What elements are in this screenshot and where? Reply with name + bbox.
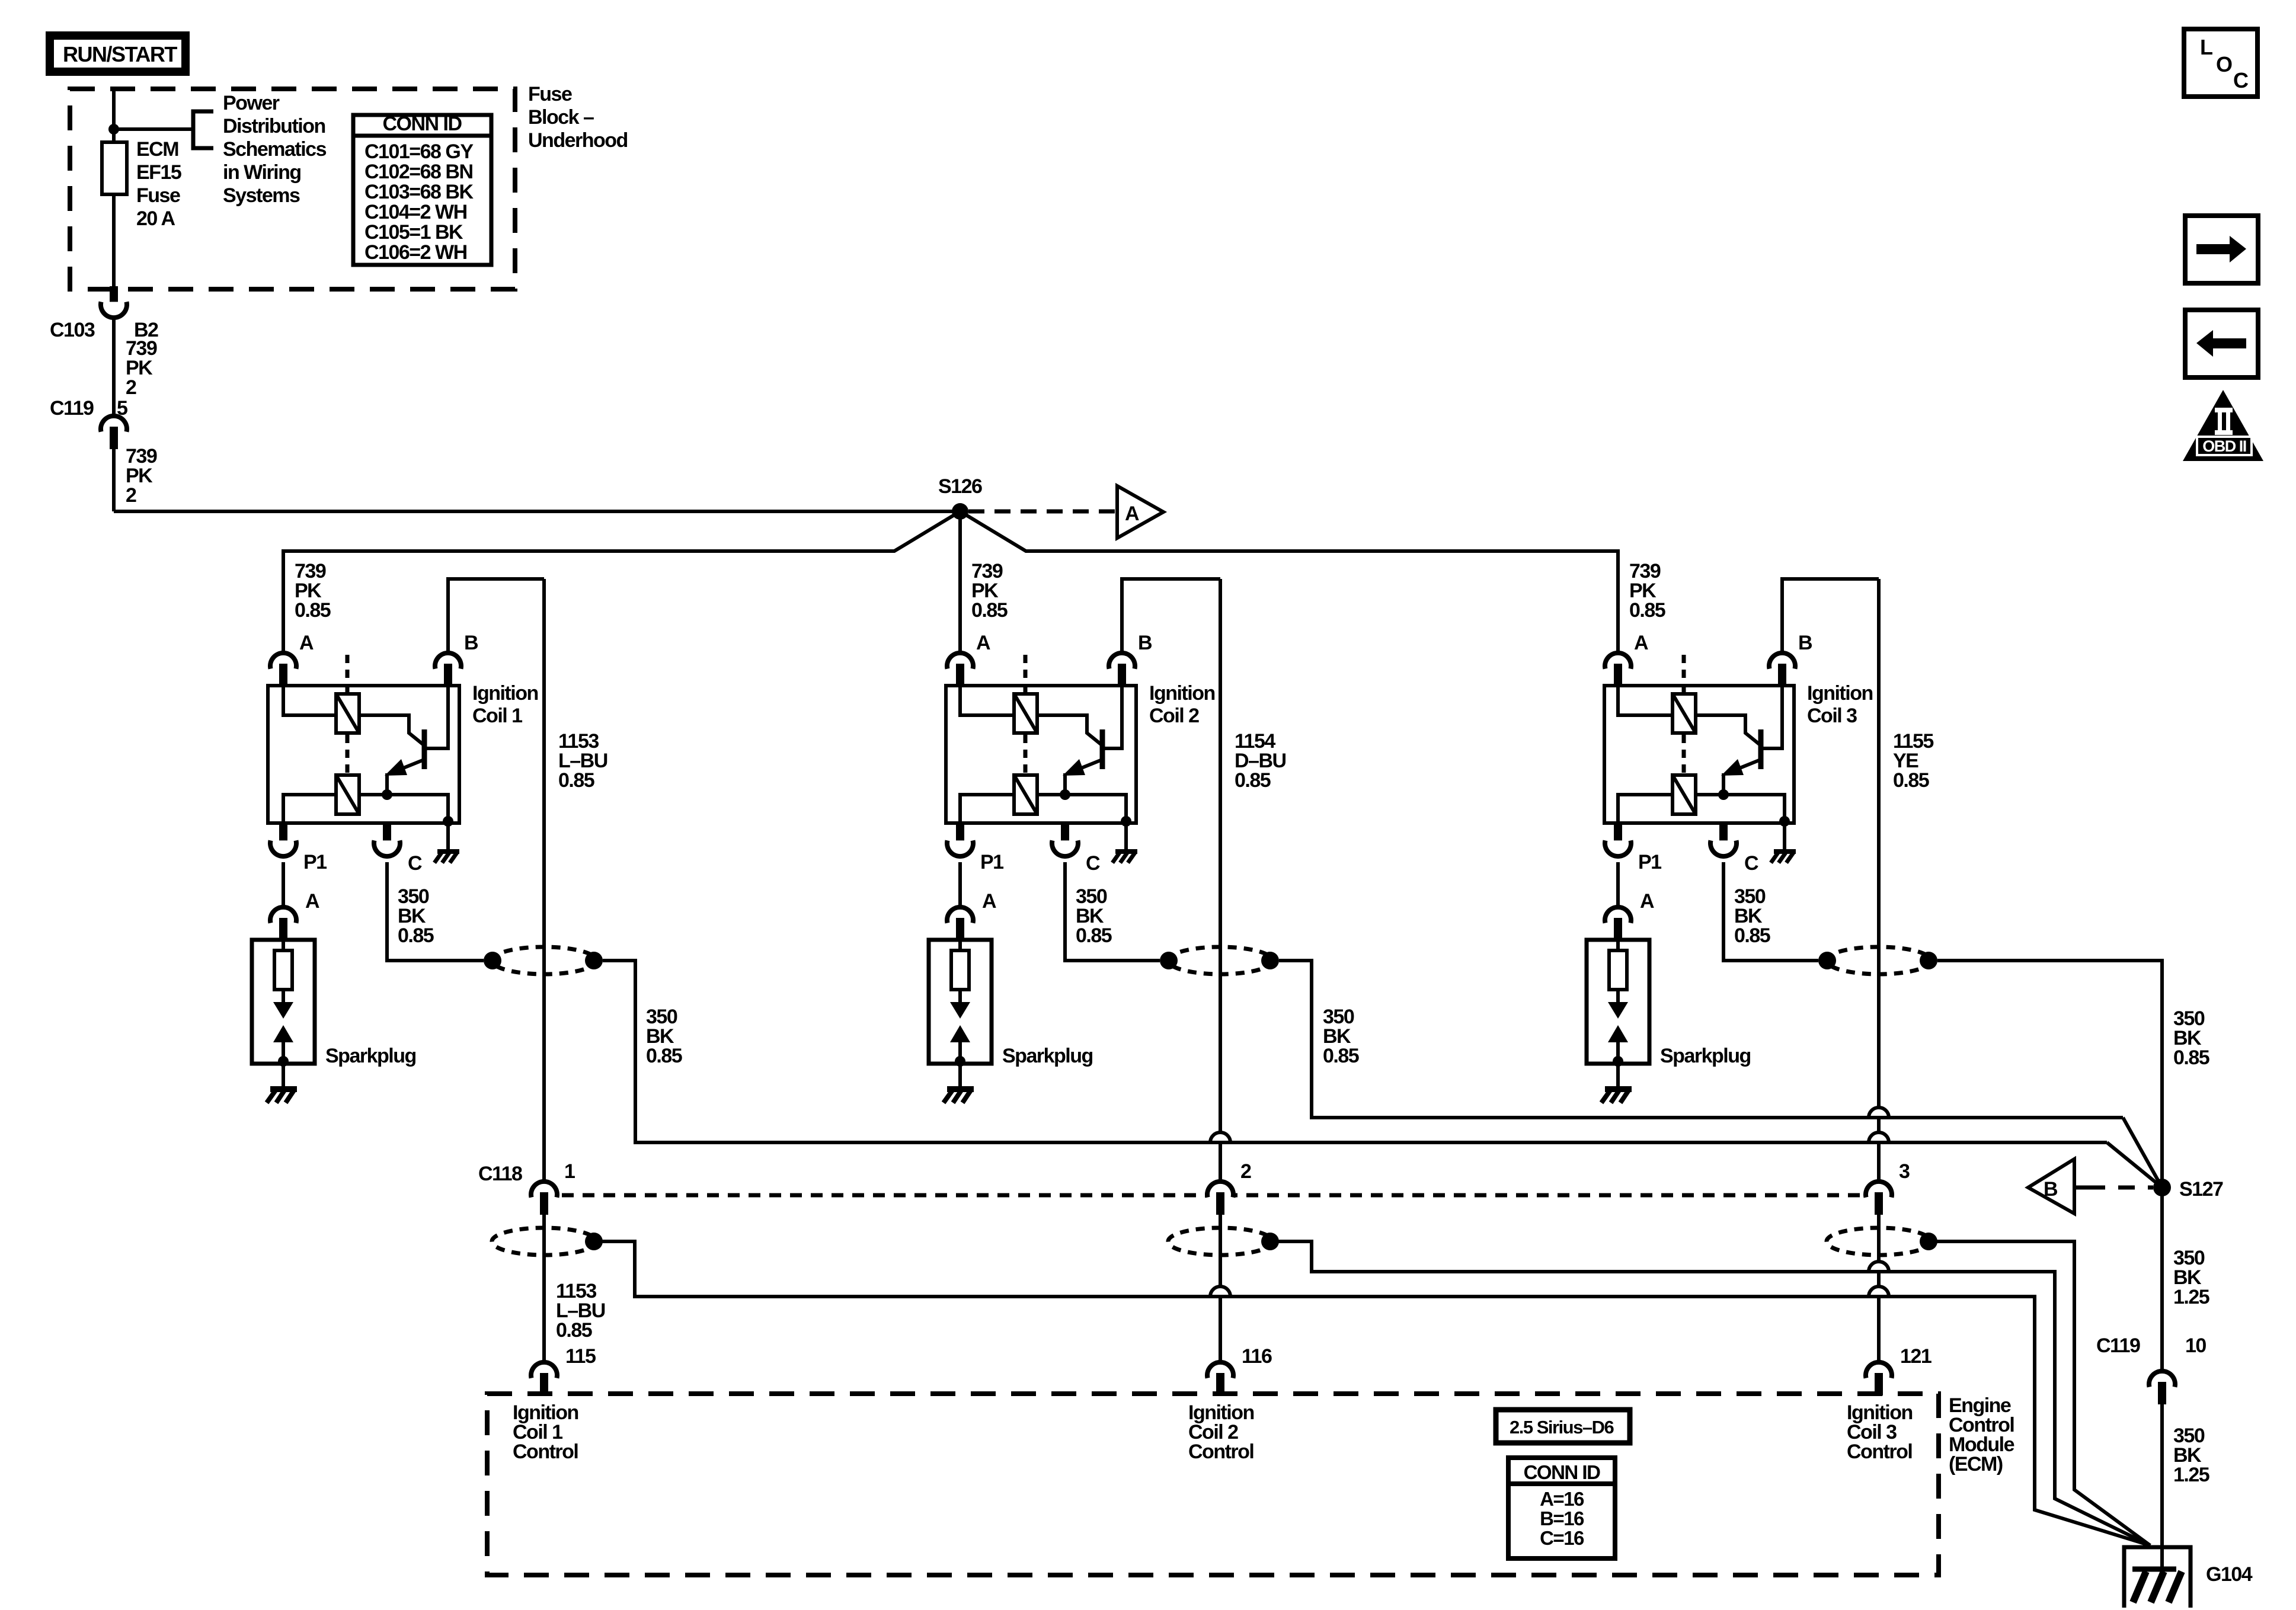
sparkplug 2 ground — [958, 1064, 962, 1086]
sparkplug 3 connector A — [1605, 907, 1631, 923]
drain wire from twist 1 to ground bundle — [602, 1241, 2150, 1545]
svg-text:Ignition: Ignition — [1807, 682, 1873, 705]
svg-text:C106=2 WH: C106=2 WH — [364, 241, 467, 264]
ignition coil 2 terminal C connector — [1061, 825, 1069, 844]
svg-text:CONN ID: CONN ID — [1524, 1461, 1601, 1483]
svg-text:0.85: 0.85 — [1629, 599, 1665, 622]
svg-text:A: A — [305, 890, 319, 913]
svg-text:0.85: 0.85 — [1734, 924, 1770, 947]
branch wire from S126 to ignition coil 1 terminal A — [283, 511, 960, 653]
svg-text:B: B — [464, 632, 478, 654]
svg-text:Control: Control — [1847, 1441, 1912, 1463]
ignition coil 2 terminal B connector — [1109, 653, 1135, 669]
legend icon arrow right — [2185, 216, 2258, 283]
drain wire from twist 2 to ground bundle — [1270, 1241, 2150, 1545]
svg-text:Coil 1: Coil 1 — [472, 705, 522, 727]
ignition coil 3 primary winding wire to transistor — [1697, 715, 1761, 745]
engine control module dashed box — [487, 1394, 1939, 1575]
dashed reference wire from arrow B to S127 — [2074, 1186, 2089, 1190]
svg-text:in Wiring: in Wiring — [223, 161, 301, 184]
svg-text:0.85: 0.85 — [1893, 769, 1929, 792]
svg-text:0.85: 0.85 — [295, 599, 331, 622]
svg-text:1: 1 — [564, 1160, 575, 1183]
connector C103 pin B2 — [110, 286, 118, 305]
ignition coil 1 terminal P1 connector — [279, 825, 287, 844]
svg-text:0.85: 0.85 — [558, 769, 594, 792]
svg-text:Power: Power — [223, 92, 280, 114]
svg-text:B: B — [1138, 632, 1152, 654]
fuse ECM EF15 20A — [102, 142, 127, 194]
ignition coil 1 internal ground — [446, 823, 450, 849]
ignition coil 3 transistor Q3 base bar — [1758, 729, 1764, 769]
sparkplug 1 ground — [282, 1064, 285, 1086]
svg-text:0.85: 0.85 — [1235, 769, 1271, 792]
ignition coil 3 transistor emitter with arrow — [1725, 760, 1759, 774]
wire 739 PK 2 from C119 to splice S126 — [112, 449, 116, 511]
RUN/START hot-at switch box — [50, 36, 186, 72]
svg-text:0.85: 0.85 — [971, 599, 1008, 622]
svg-text:S127: S127 — [2179, 1178, 2223, 1201]
svg-text:1.25: 1.25 — [2173, 1464, 2209, 1486]
ignition coil 1 terminal A internal wire to primary winding — [283, 681, 334, 715]
connector C118 pin 3 — [1866, 1182, 1892, 1198]
ignition coil 3 secondary ground wire 350 BK with twist 3 — [1723, 862, 1818, 961]
ignition coil 1 transistor collector wire to terminal B — [426, 681, 448, 748]
svg-text:A: A — [982, 890, 996, 913]
svg-text:RUN/START: RUN/START — [63, 42, 177, 66]
svg-text:3: 3 — [1899, 1160, 1910, 1183]
node junction above fuse — [108, 124, 119, 135]
svg-text:Sparkplug: Sparkplug — [1002, 1045, 1093, 1067]
svg-text:ECM: ECM — [136, 138, 178, 161]
ignition coil 1 secondary wire to sparkplug — [282, 862, 285, 907]
wire 739 PK 2 between C103 and C119 — [112, 318, 116, 416]
ignition coil 3 secondary winding left wire to terminal P1 — [1618, 795, 1671, 823]
svg-text:20 A: 20 A — [136, 207, 175, 230]
svg-text:(ECM): (ECM) — [1949, 1453, 2003, 1475]
svg-text:Fuse: Fuse — [136, 184, 180, 207]
ignition coil 2 transistor Q2 base bar — [1100, 729, 1105, 769]
svg-text:A: A — [299, 632, 314, 654]
coil 3 control wire below C118 with twist — [1827, 1228, 1931, 1255]
ignition coil 3 terminal A internal wire to primary winding — [1618, 681, 1671, 715]
svg-text:Coil 2: Coil 2 — [1149, 705, 1199, 727]
svg-text:G104: G104 — [2206, 1563, 2253, 1586]
connector C118 pin 1 — [531, 1182, 557, 1198]
ignition coil 1 transistor emitter with arrow — [389, 760, 423, 774]
ignition coil 1 primary winding wire to transistor — [361, 715, 424, 745]
coil 1 control wire below C118 with twist — [492, 1228, 596, 1255]
svg-text:0.85: 0.85 — [646, 1045, 682, 1067]
svg-text:EF15: EF15 — [136, 161, 181, 184]
svg-text:A=16: A=16 — [1540, 1488, 1584, 1510]
ignition coil 1 transistor Q1 base bar — [422, 729, 427, 769]
wire 350 BK from twist 2 toward splice S127 — [1279, 961, 2123, 1118]
ECM connector pin 115 — [531, 1362, 557, 1378]
ignition coil 2 secondary winding right wire to internal ground — [1039, 795, 1126, 823]
svg-text:CONN ID: CONN ID — [382, 113, 462, 135]
branch wire from S126 to ignition coil 3 terminal A — [960, 511, 1618, 653]
svg-text:A: A — [1125, 502, 1139, 525]
ignition coil 1 primary winding — [336, 694, 359, 733]
svg-text:115: 115 — [565, 1345, 596, 1368]
svg-text:1.25: 1.25 — [2173, 1286, 2209, 1308]
ignition coil 2 internal dashed core line — [1024, 655, 1028, 692]
ignition coil 3 secondary winding — [1673, 775, 1696, 814]
svg-text:Systems: Systems — [223, 184, 300, 207]
svg-text:P1: P1 — [1638, 851, 1661, 873]
svg-text:116: 116 — [1242, 1345, 1272, 1368]
ignition coil 2 secondary ground wire 350 BK with twist 2 — [1065, 862, 1160, 961]
svg-text:C=16: C=16 — [1540, 1527, 1584, 1549]
ECM connector pin 116 — [1207, 1362, 1233, 1378]
ignition coil 2 secondary winding — [1014, 775, 1037, 814]
connector C119 pin 10 — [2149, 1371, 2175, 1387]
ignition coil 1 internal dashed core line — [346, 655, 350, 692]
svg-text:C119: C119 — [50, 397, 94, 420]
svg-text:C: C — [2233, 68, 2249, 92]
svg-text:C102=68 BN: C102=68 BN — [364, 161, 473, 183]
ignition coil 2 terminal B loop wire to control vertical — [1122, 579, 1220, 653]
off-page arrow A — [1117, 486, 1163, 538]
ignition coil 2 internal ground — [1124, 823, 1128, 849]
svg-text:B=16: B=16 — [1540, 1507, 1584, 1529]
svg-text:A: A — [1640, 890, 1654, 913]
ignition coil 1 secondary winding right wire to internal ground — [361, 795, 448, 823]
sparkplug 1 body — [252, 940, 315, 1064]
legend icon LOC box — [2184, 29, 2257, 97]
svg-text:0.85: 0.85 — [2173, 1046, 2209, 1069]
svg-text:Coil 3: Coil 3 — [1807, 705, 1857, 727]
svg-text:0.85: 0.85 — [1076, 924, 1112, 947]
off-page arrow B — [2028, 1159, 2074, 1214]
svg-text:2: 2 — [126, 376, 136, 399]
drain wire from twist 3 to ground bundle — [1929, 1241, 2150, 1545]
ignition coil 1 terminal B loop wire to control vertical — [448, 579, 544, 653]
fuse block underhood dashed box — [70, 89, 515, 289]
ignition coil 2 transistor collector wire to terminal B — [1104, 681, 1122, 748]
svg-text:C103=68 BK: C103=68 BK — [364, 181, 474, 203]
dashed reference wire to arrow A — [968, 510, 1115, 514]
svg-text:C105=1 BK: C105=1 BK — [364, 221, 463, 244]
coil 2 control wire below C118 with twist — [1168, 1228, 1272, 1255]
svg-text:C101=68 GY: C101=68 GY — [364, 140, 474, 163]
splice S127 — [2153, 1179, 2171, 1196]
branch wire from S126 to ignition coil 2 terminal A — [958, 511, 962, 653]
sparkplug 1 connector A — [270, 907, 296, 923]
svg-text:Sparkplug: Sparkplug — [325, 1045, 416, 1067]
svg-text:Ignition: Ignition — [1149, 682, 1215, 705]
ignition coil 1 secondary winding — [336, 775, 359, 814]
svg-text:L: L — [2200, 35, 2212, 59]
ignition coil 2 secondary winding left wire to terminal P1 — [960, 795, 1012, 823]
svg-text:B: B — [2044, 1178, 2058, 1201]
svg-text:C104=2 WH: C104=2 WH — [364, 201, 467, 223]
svg-text:10: 10 — [2185, 1334, 2206, 1357]
ignition coil 1 secondary ground wire 350 BK with twist 1 — [387, 862, 484, 961]
svg-text:Control: Control — [513, 1441, 578, 1463]
svg-text:0.85: 0.85 — [556, 1319, 592, 1342]
ignition coil 3 internal ground — [1783, 823, 1786, 849]
ignition coil 1 terminal B connector — [435, 653, 461, 669]
svg-text:C: C — [408, 852, 422, 875]
svg-text:Schematics: Schematics — [223, 138, 327, 161]
svg-text:P1: P1 — [303, 851, 327, 873]
wire 350 BK 1.25 from S127 to C119 — [2160, 1188, 2164, 1371]
ECM connector pin 121 — [1866, 1362, 1892, 1378]
ignition coil 2 primary winding — [1014, 694, 1037, 733]
sparkplug 2 body — [929, 940, 992, 1064]
ignition coil 3 secondary wire to sparkplug — [1616, 862, 1620, 907]
svg-text:Block –: Block – — [528, 106, 594, 129]
ignition coil 2 case box — [946, 686, 1136, 823]
svg-text:Sparkplug: Sparkplug — [1660, 1045, 1751, 1067]
ignition coil 3 secondary winding right wire to internal ground — [1697, 795, 1785, 823]
ground G104 — [2124, 1547, 2191, 1608]
svg-text:P1: P1 — [980, 851, 1003, 873]
ignition coil 2 terminal A connector — [947, 653, 973, 669]
svg-text:O: O — [2216, 52, 2232, 76]
ignition coil 3 primary winding — [1673, 694, 1696, 733]
svg-text:Distribution: Distribution — [223, 115, 325, 137]
svg-text:0.85: 0.85 — [1323, 1045, 1359, 1067]
ignition coil 2 primary winding wire to transistor — [1039, 715, 1102, 745]
legend icon arrow left — [2185, 310, 2258, 377]
wire from RUN/START into fuse block — [112, 89, 116, 142]
wire 350 BK from twist 3 toward splice S127 — [1937, 961, 2162, 1180]
connector C118 dotted harness line — [562, 1193, 1863, 1198]
svg-text:C119: C119 — [2096, 1334, 2140, 1357]
svg-text:OBD II: OBD II — [2202, 437, 2246, 455]
svg-text:C: C — [1086, 852, 1100, 875]
wire to power distribution reference bracket — [114, 127, 193, 131]
svg-text:0.85: 0.85 — [398, 924, 434, 947]
ignition coil 3 case box — [1604, 686, 1794, 823]
splice S126 — [952, 503, 968, 520]
ignition coil 1 terminal C connector — [383, 825, 391, 844]
svg-text:5: 5 — [117, 397, 127, 420]
ignition coil 3 terminal B connector — [1769, 653, 1795, 669]
svg-text:2: 2 — [1240, 1160, 1251, 1183]
ignition coil 3 terminal P1 connector — [1614, 825, 1622, 844]
ignition coil 3 emitter junction — [1718, 789, 1729, 800]
svg-text:C118: C118 — [478, 1163, 522, 1185]
connector C119 pin 5 — [101, 416, 127, 432]
sparkplug 3 ground — [1616, 1064, 1620, 1086]
ignition coil 1 terminal A connector — [270, 653, 296, 669]
svg-text:Fuse: Fuse — [528, 83, 572, 105]
svg-text:Control: Control — [1188, 1441, 1253, 1463]
svg-text:2: 2 — [126, 484, 136, 507]
ignition coil 3 terminal C connector — [1719, 825, 1728, 844]
ignition coil 2 emitter junction — [1060, 789, 1070, 800]
svg-text:121: 121 — [1900, 1345, 1932, 1368]
svg-text:Underhood: Underhood — [528, 129, 628, 152]
ignition coil 2 terminal A internal wire to primary winding — [960, 681, 1012, 715]
CONN ID table fuse block — [353, 115, 491, 265]
ignition coil 2 secondary wire to sparkplug — [958, 862, 962, 907]
svg-text:2.5 Sirius–D6: 2.5 Sirius–D6 — [1510, 1417, 1614, 1438]
ignition coil 2 transistor emitter with arrow — [1067, 760, 1101, 774]
svg-text:S126: S126 — [938, 475, 982, 498]
ignition coil 2 terminal P1 connector — [956, 825, 964, 844]
wire 350 BK from twist 1 toward splice S127 — [603, 961, 2107, 1142]
connector C118 pin 2 — [1207, 1182, 1233, 1198]
ignition coil 3 transistor collector wire to terminal B — [1763, 681, 1782, 748]
ignition coil 3 terminal A connector — [1605, 653, 1631, 669]
sparkplug 2 connector A — [947, 907, 973, 923]
svg-text:Ignition: Ignition — [472, 682, 538, 705]
svg-text:B: B — [1798, 632, 1812, 654]
legend icon OBD II triangle — [2183, 390, 2263, 461]
ignition coil 3 internal dashed core line — [1682, 655, 1686, 692]
CONN ID table ECM — [1508, 1458, 1615, 1558]
svg-text:C: C — [1744, 852, 1758, 875]
svg-text:A: A — [976, 632, 990, 654]
sparkplug 3 body — [1587, 940, 1649, 1064]
ignition coil 1 secondary winding left wire to terminal P1 — [283, 795, 334, 823]
svg-text:A: A — [1634, 632, 1648, 654]
wire 350 BK 1.25 from C119 to ground G104 — [2160, 1404, 2164, 1571]
power distribution reference bracket — [193, 111, 213, 148]
ignition coil 1 case box — [268, 686, 459, 823]
svg-text:C103: C103 — [50, 319, 95, 341]
ignition coil 1 emitter junction — [382, 789, 392, 800]
ignition coil 3 terminal B loop wire to control vertical — [1782, 579, 1879, 653]
ECM variant box 2.5 Sirius-D6 — [1496, 1410, 1630, 1443]
